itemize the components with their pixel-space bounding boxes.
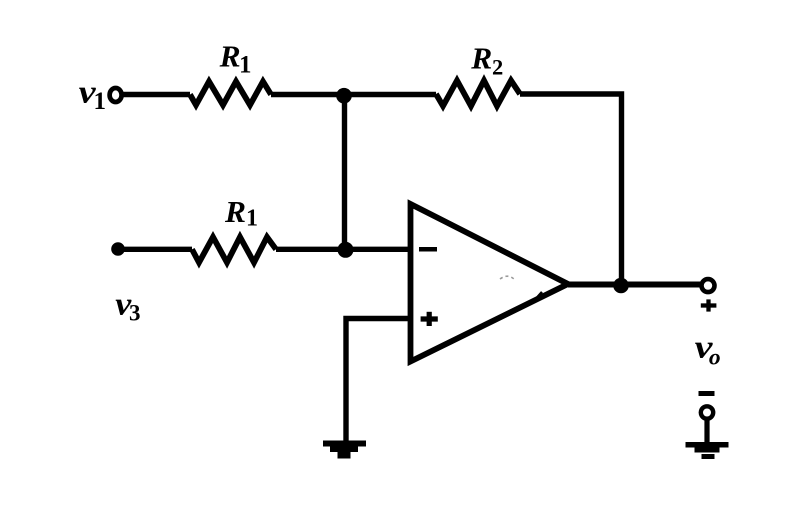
minus polarity mark — [699, 391, 715, 396]
svg-text:R: R — [224, 194, 246, 229]
label R2 — [470, 40, 503, 79]
wire R2 to top-right corner, down to output node — [520, 94, 622, 285]
svg-text:2: 2 — [492, 54, 503, 79]
node C (output junction with feedback) — [613, 278, 629, 294]
op-amp inverting input (-) pin mark — [419, 247, 437, 252]
wire node A down to node B — [342, 95, 347, 250]
node B (junction at inverting input) — [338, 242, 354, 258]
terminal vo (open circle) — [702, 279, 715, 292]
svg-text:1: 1 — [246, 206, 258, 232]
wire R1 to node A and on to R2 — [271, 92, 436, 97]
op-amp U1 (triangle) — [411, 204, 569, 362]
resistor R1 (top) — [190, 82, 271, 106]
wire R1 (bottom) to node B and to op-amp inverting input — [276, 247, 408, 252]
ground (left, below noninverting input) — [323, 441, 366, 459]
label v3 — [115, 287, 140, 326]
svg-text:1: 1 — [239, 52, 252, 79]
wire reference terminal to ground — [704, 419, 709, 443]
wire op-amp output to terminal — [568, 282, 701, 288]
ground (right, below reference terminal) — [686, 442, 729, 459]
reference terminal (open circle) — [701, 406, 713, 418]
svg-text:R: R — [219, 38, 241, 73]
node A (junction of R1, R2, vertical wire) — [336, 88, 352, 104]
svg-text:3: 3 — [129, 301, 141, 326]
resistor R1 (bottom) — [192, 237, 276, 263]
svg-text:1: 1 — [94, 88, 107, 115]
svg-text:R: R — [470, 40, 492, 75]
label R1 (top) — [219, 38, 252, 78]
op-amp noninverting input (+) pin mark — [421, 312, 438, 326]
plus polarity mark — [701, 299, 717, 311]
wire v3 to R1 (bottom) — [118, 247, 192, 252]
svg-text:o: o — [709, 345, 721, 371]
resistor R2 — [436, 81, 520, 107]
terminal v3 (filled dot) — [111, 242, 125, 256]
label v1 — [79, 75, 106, 116]
scan smudge inside op-amp — [500, 276, 542, 302]
terminal v1 (open circle) — [110, 88, 122, 102]
label vo — [695, 329, 721, 370]
wire v1 to R1 — [123, 92, 190, 97]
wire op-amp noninverting input to ground — [346, 319, 408, 442]
label R1 (bottom) — [224, 194, 258, 232]
